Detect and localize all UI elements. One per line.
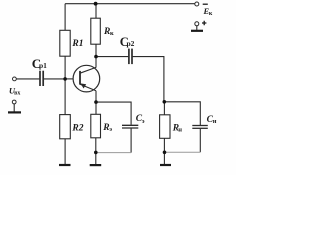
wire input to Cp1: [17, 78, 40, 80]
svg-text:к: к: [209, 11, 213, 17]
terminal input bottom: [12, 100, 16, 104]
node collector junction: [94, 55, 98, 59]
resistor R2: [60, 115, 71, 139]
svg-text:к: к: [110, 30, 114, 37]
wire Rn bottom to ground: [163, 138, 165, 164]
svg-text:н: н: [213, 118, 217, 125]
capacitor Cn: [192, 126, 208, 129]
capacitor Cp2: [129, 49, 132, 65]
svg-text:р1: р1: [39, 61, 47, 70]
transistor emitter line: [80, 84, 96, 91]
wire Cn bottom to Rn node: [165, 151, 201, 153]
wire R1 column top: [64, 4, 66, 31]
resistor Re: [91, 114, 101, 138]
wire Cn bottom stem: [199, 129, 201, 152]
wire Rn top: [163, 102, 165, 115]
transistor collector line: [80, 67, 96, 73]
wire emitter node to Ce: [96, 102, 131, 125]
ground R2: [59, 164, 71, 166]
resistor Rn: [160, 115, 170, 139]
wire Cp1 to base node: [44, 78, 65, 80]
wire emitter column: [95, 91, 97, 115]
wire collector node to Cp2: [96, 56, 128, 58]
wire R2 to ground: [64, 139, 66, 164]
terminal Ek minus: [195, 2, 199, 6]
capacitor Cp1: [40, 71, 43, 86]
wire Rk top: [95, 4, 97, 19]
capacitor Ce: [122, 125, 138, 128]
wire Ce bottom to Re node: [96, 152, 132, 154]
transistor base bar: [79, 71, 81, 85]
wire Cp2 to output corner: [133, 57, 164, 102]
node Rk top junction: [94, 2, 98, 6]
wire top rail: [65, 3, 195, 5]
ground Rn: [160, 164, 171, 166]
wire input ground stem: [13, 104, 15, 112]
ground input: [8, 111, 21, 113]
svg-text:вх: вх: [14, 90, 20, 96]
terminal input top: [13, 77, 17, 81]
svg-text:р2: р2: [127, 39, 135, 48]
resistor R1: [60, 30, 70, 56]
node Rn bottom junction: [163, 151, 167, 155]
terminal Ek plus: [195, 22, 199, 26]
svg-text:э: э: [109, 126, 112, 133]
transistor emitter arrow: [80, 83, 86, 88]
ground Re: [90, 164, 102, 166]
svg-text:R1: R1: [71, 39, 83, 49]
svg-text:н: н: [178, 127, 182, 134]
svg-text:R2: R2: [71, 123, 83, 133]
node emitter junction: [94, 100, 98, 104]
wire base node to base bar: [65, 78, 79, 80]
wire Re bottom to ground: [95, 138, 97, 165]
ground Ek: [191, 30, 203, 32]
label plus: [202, 21, 206, 25]
node Re bottom junction: [94, 151, 98, 155]
wire Rk bottom to collector: [95, 44, 97, 67]
wire Ek plus stem: [196, 26, 198, 30]
node output junction: [163, 100, 167, 104]
svg-text:э: э: [142, 118, 145, 125]
resistor Rk: [91, 18, 101, 44]
node base junction: [63, 77, 67, 81]
transistor VT circle: [73, 65, 100, 92]
wire output node to Cn: [164, 102, 200, 125]
wire Ce bottom stem: [130, 129, 132, 153]
wire R1 to R2 through base node: [64, 56, 66, 114]
label minus: [203, 3, 208, 5]
